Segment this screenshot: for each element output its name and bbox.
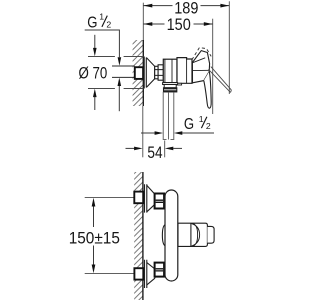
dimension 189 line <box>144 5 230 7</box>
escutcheon top cone <box>147 185 155 211</box>
body left bulge behind capsule <box>162 225 165 246</box>
wall surface line (front view) <box>142 172 144 300</box>
label G 1/2 (bottom) leader line + right arrow <box>182 132 214 134</box>
label G 1/2 (top) leader arrow <box>118 57 122 66</box>
union square fitting top (front view) <box>134 192 143 204</box>
handle end cap (front view) <box>207 226 214 243</box>
wall hatching (front view) <box>134 172 143 300</box>
hub seam <box>193 69 210 71</box>
svg-text:54: 54 <box>147 143 162 162</box>
union square fitting bottom (front view) <box>134 268 143 279</box>
escutcheon bottom cone <box>147 263 155 285</box>
svg-text:G: G <box>184 116 194 133</box>
mixer body block A (side view) <box>163 59 177 82</box>
body seam lines <box>165 59 172 82</box>
dimension 54 left arrow <box>134 147 143 151</box>
phantom lever blade (open position) <box>208 67 231 93</box>
pipe end ticks <box>163 138 174 140</box>
svg-text:G: G <box>87 15 97 32</box>
svg-text:1: 1 <box>99 11 104 21</box>
dimension 189 right arrow <box>220 4 229 8</box>
dimension 150+-15 top arrow <box>92 198 96 207</box>
extension line bottom connection <box>85 272 135 274</box>
extension line escutcheon top edge <box>88 56 144 58</box>
escutcheon cone (side view) <box>146 58 154 88</box>
escutcheon top nut <box>155 194 165 209</box>
union square fitting (side view) <box>135 67 143 79</box>
dimension 189 left arrow <box>144 4 153 8</box>
lever blade down (closed position) <box>204 72 211 109</box>
label G 1/2 (bottom) left arrow <box>141 132 155 134</box>
extension line top connection <box>85 197 135 199</box>
extension line 150 right (lever tip) <box>212 19 214 114</box>
extension line 189 right (handle open tip) <box>228 1 230 94</box>
extension line escutcheon bottom edge <box>88 88 144 90</box>
outlet neck <box>164 85 176 88</box>
svg-text:150: 150 <box>167 15 191 34</box>
extension line 54 right <box>164 141 166 158</box>
label G 1/2 (top) leader line <box>85 30 120 57</box>
escutcheon top (front view) base lines <box>145 184 147 212</box>
extension line left (wall plane, above) <box>142 3 144 40</box>
svg-text:Ø 70: Ø 70 <box>79 64 108 83</box>
extension line wall plane (below, to 54 dim) <box>142 106 144 157</box>
small step under cartridge <box>177 83 182 85</box>
escutcheon bottom nut <box>155 263 165 277</box>
dimension 150 line <box>144 23 213 25</box>
cap seam <box>186 59 188 83</box>
grip face arcs <box>192 223 200 246</box>
dimension 150 left arrow <box>144 22 153 26</box>
supply pipe stub lines (side view) <box>112 66 135 77</box>
body capsule (front view) <box>165 190 178 281</box>
handle neck and grip (front view) <box>178 223 207 246</box>
svg-text:1: 1 <box>199 114 204 124</box>
grip boundary line <box>190 223 192 246</box>
dimension 54 right arrow <box>165 147 174 151</box>
escutcheon nut ring 2 <box>158 65 163 80</box>
opposing arrow at pipe bottom <box>118 78 122 87</box>
dimension 150 right arrow <box>204 22 213 26</box>
lever hub (side view) <box>192 51 209 83</box>
dimension 150+-15 bottom arrow <box>92 265 96 274</box>
wall surface line (side view) <box>142 40 144 106</box>
svg-text:150±15: 150±15 <box>69 229 120 248</box>
outlet pipe (3 lines) <box>163 92 174 140</box>
cartridge block B (side view) <box>177 58 192 84</box>
svg-text:2: 2 <box>206 121 211 131</box>
outlet flange <box>163 83 178 85</box>
dimension 54 line left <box>126 147 135 149</box>
outlet nut dark band <box>164 88 177 92</box>
svg-text:2: 2 <box>106 20 111 30</box>
escutcheon bottom (front view) base lines <box>145 260 147 288</box>
dimension O70 top arrow <box>94 35 96 49</box>
escutcheon (side view) base <box>144 57 146 89</box>
escutcheon nut ring 1 <box>155 66 158 79</box>
phantom hub outline (dashed, open position) <box>192 48 211 60</box>
dimension 150+-15 line <box>93 206 95 265</box>
dimension O70 bottom arrow <box>93 89 97 98</box>
wall hatching (side view) <box>133 40 144 106</box>
